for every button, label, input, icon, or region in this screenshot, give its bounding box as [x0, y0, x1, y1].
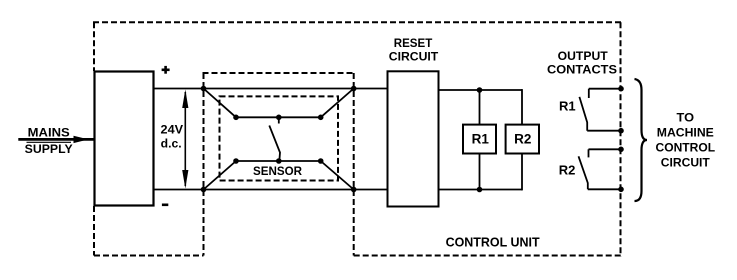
- mains supply arrow: [18, 136, 93, 143]
- diagonal wire top-left: [204, 89, 237, 118]
- sensor bottom contact line: [236, 160, 321, 162]
- reset circuit box: [388, 71, 439, 206]
- svg-text:RESET: RESET: [394, 36, 433, 50]
- power supply box: [95, 72, 154, 206]
- + terminal label: [162, 66, 170, 74]
- diagonal wire bottom-right: [321, 161, 354, 190]
- wire relay top bus: [439, 89, 523, 91]
- 24V measurement arrow: [182, 90, 188, 189]
- svg-text:R1: R1: [472, 131, 490, 146]
- svg-text:24V: 24V: [161, 122, 184, 136]
- control unit dashed boundary: [93, 22, 622, 256]
- sensor switch: [269, 117, 280, 161]
- wire relay bottom bus: [439, 189, 523, 191]
- 24V d.c. label: [161, 122, 184, 150]
- svg-text:R1: R1: [559, 99, 576, 114]
- svg-text:R2: R2: [514, 131, 531, 146]
- TO MACHINE CONTROL CIRCUIT label: [656, 110, 716, 169]
- relay R1 box: [463, 125, 496, 154]
- svg-text:d.c.: d.c.: [161, 137, 182, 151]
- label MAINS SUPPLY: [25, 126, 73, 156]
- sensor inner dashed box: [220, 96, 339, 180]
- svg-text:TO: TO: [677, 110, 695, 124]
- output contact R1: [579, 89, 621, 131]
- svg-text:MAINS: MAINS: [28, 126, 70, 140]
- node dots sensor: [201, 86, 357, 193]
- svg-text:CIRCUIT: CIRCUIT: [661, 155, 711, 169]
- RESET CIRCUIT label: [389, 36, 439, 64]
- sensor top contact line: [236, 116, 321, 118]
- node dots relay branches: [477, 87, 483, 192]
- svg-text:SUPPLY: SUPPLY: [25, 142, 73, 156]
- wire R2 branch: [521, 89, 523, 190]
- relay R2 box: [506, 125, 539, 154]
- svg-text:R2: R2: [559, 162, 576, 177]
- svg-text:CIRCUIT: CIRCUIT: [389, 50, 439, 64]
- wire bottom bus: [154, 189, 388, 191]
- svg-text:CONTROL UNIT: CONTROL UNIT: [446, 236, 540, 250]
- OUTPUT CONTACTS label: [547, 49, 617, 77]
- - terminal label: [162, 204, 168, 207]
- svg-text:MACHINE: MACHINE: [657, 125, 714, 139]
- svg-text:OUTPUT: OUTPUT: [558, 49, 609, 63]
- brace: [635, 79, 648, 201]
- svg-text:SENSOR: SENSOR: [253, 164, 302, 178]
- node dots output contacts: [618, 86, 624, 192]
- svg-text:CONTACTS: CONTACTS: [547, 63, 617, 77]
- diagonal wire top-right: [321, 89, 354, 118]
- sensor dashed enclosure: [203, 73, 355, 256]
- output contact R2: [579, 149, 622, 189]
- svg-text:CONTROL: CONTROL: [656, 141, 716, 155]
- wire R1 branch: [479, 90, 481, 190]
- wire top bus: [154, 88, 388, 90]
- diagonal wire bottom-left: [204, 161, 237, 190]
